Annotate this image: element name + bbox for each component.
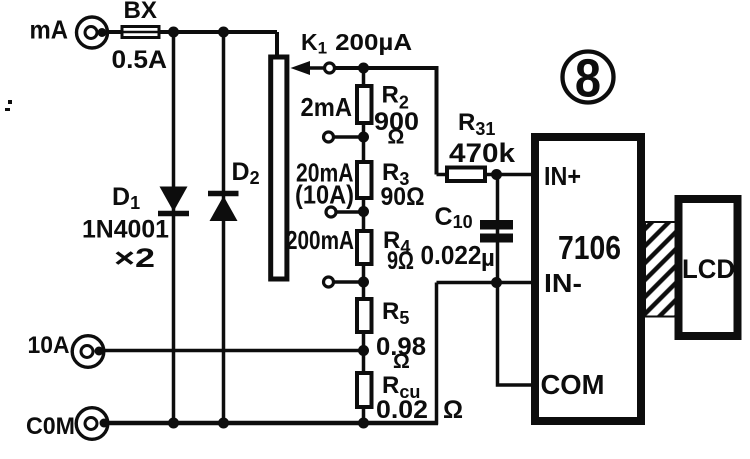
- switch contact 200mA: [324, 277, 334, 287]
- node junction 10A row: [358, 345, 369, 356]
- wire C10 vertical: [496, 175, 500, 283]
- switch contact 20mA: [326, 207, 336, 217]
- wire contact 2mA stub: [334, 135, 364, 139]
- svg-text:9Ω: 9Ω: [387, 247, 414, 275]
- node junction top D2: [218, 27, 229, 38]
- wire contact 200mA stub: [334, 280, 364, 284]
- svg-text:1N4001: 1N4001: [82, 216, 169, 244]
- diode D2: [208, 194, 239, 222]
- switch contact 200uA: [325, 63, 335, 73]
- wire 10A row: [103, 349, 364, 353]
- svg-text:mA: mA: [30, 15, 69, 45]
- node junction 200mA: [358, 277, 369, 288]
- terminal mA: [77, 17, 108, 48]
- wire D2 vertical: [222, 32, 226, 423]
- svg-text:×2: ×2: [114, 243, 155, 273]
- svg-text:Ω: Ω: [393, 350, 410, 373]
- svg-text:90Ω: 90Ω: [381, 183, 425, 211]
- resistor R3: [357, 162, 372, 198]
- node junction chain bottom: [358, 418, 369, 429]
- wire IN- row: [437, 281, 536, 285]
- op-amp U1 7106 IC box: [535, 137, 641, 421]
- svg-text:COM: COM: [541, 369, 605, 400]
- svg-text:8: 8: [575, 47, 601, 108]
- resistor R4: [357, 231, 372, 264]
- wire D1 vertical: [172, 32, 176, 423]
- switch contact 2mA: [324, 132, 334, 142]
- terminal 10A: [72, 336, 104, 368]
- switch K1 bar: [271, 57, 287, 279]
- node junction 20mA: [358, 206, 369, 217]
- svg-text:470k: 470k: [449, 138, 516, 168]
- node junction bottom D1: [168, 418, 179, 429]
- svg-text:BX: BX: [124, 0, 158, 24]
- wire top rail: [105, 30, 277, 34]
- svg-text:0.022: 0.022: [421, 240, 482, 270]
- svg-text:LCD: LCD: [682, 254, 735, 284]
- wire K1 row to right corner: [335, 68, 437, 175]
- wire bottom rail: [107, 421, 438, 426]
- node junction bottom D2: [218, 418, 229, 429]
- node junction top D1: [168, 27, 179, 38]
- figure number 8: [563, 47, 614, 108]
- wire COM route: [498, 283, 536, 386]
- wire R31 row to IC IN+: [437, 173, 536, 177]
- terminal COM: [76, 408, 108, 440]
- svg-text:2mA: 2mA: [301, 92, 353, 122]
- svg-text:IN+: IN+: [544, 161, 581, 191]
- LCD connector hatch: [645, 222, 676, 317]
- node junction R31 out: [491, 169, 502, 180]
- diode D1: [158, 187, 189, 214]
- node junction IN- C10: [491, 277, 502, 288]
- capacitor C10: [480, 220, 513, 243]
- wire contact 20mA stub: [336, 210, 364, 214]
- svg-text:C0M: C0M: [26, 413, 75, 440]
- svg-text:0.02: 0.02: [376, 396, 428, 424]
- svg-text:7106: 7106: [558, 229, 621, 266]
- svg-text:µ: µ: [481, 245, 495, 272]
- node junction 2mA: [358, 132, 369, 143]
- resistor R2: [357, 86, 372, 123]
- svg-text:200mA: 200mA: [286, 225, 354, 255]
- svg-text:IN-: IN-: [544, 268, 582, 298]
- wire left vertical IN- to bottom rail: [435, 283, 439, 425]
- LCD box: [679, 199, 738, 336]
- resistor R5: [357, 299, 372, 332]
- svg-text:10A: 10A: [28, 332, 70, 359]
- svg-text:(10A): (10A): [295, 180, 354, 210]
- svg-text:0.5A: 0.5A: [112, 46, 168, 74]
- scan speck left margin: [5, 100, 12, 111]
- svg-text:Ω: Ω: [388, 126, 405, 149]
- resistor Rcu: [357, 373, 372, 407]
- svg-text:Ω: Ω: [443, 396, 463, 424]
- node junction K1 row: [358, 63, 369, 74]
- wire top rail corner down to switch bar: [275, 32, 279, 57]
- wire resistor chain vertical: [362, 68, 366, 423]
- switch K1 wiper arrow: [291, 61, 327, 75]
- fuse BX 0.5A: [112, 27, 166, 38]
- resistor R31: [447, 168, 485, 182]
